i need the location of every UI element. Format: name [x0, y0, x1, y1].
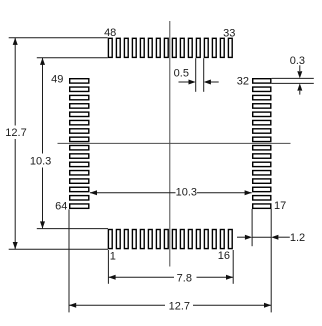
svg-text:64: 64 [55, 201, 67, 213]
extension line top outer [9, 37, 108, 39]
dimension 12.7 bottom line [69, 304, 165, 306]
svg-text:10.3: 10.3 [30, 155, 51, 167]
dimension 0.3 arrows [299, 65, 301, 71]
extension lines pad width 0.3 [272, 77, 314, 79]
dimension 10.3 vertical line [42, 58, 44, 154]
extension line pad17 left edge [251, 209, 253, 246]
svg-text:1.2: 1.2 [290, 232, 305, 244]
svg-text:48: 48 [104, 27, 116, 39]
svg-text:0.3: 0.3 [290, 55, 305, 67]
dimension 1.2 arrows [237, 236, 245, 238]
dimension 7.8 line [109, 276, 174, 278]
pad column left (pins 49..64) [70, 79, 89, 209]
extension line pad16 right edge [232, 250, 234, 284]
centerline vertical [169, 21, 171, 267]
svg-text:12.7: 12.7 [5, 127, 26, 139]
extension line bottom inner [37, 228, 108, 230]
pad column right (pins 32..17) [253, 79, 271, 209]
pad row bottom (pins 1..16) [108, 230, 232, 249]
svg-text:16: 16 [218, 250, 230, 262]
extension line top inner [37, 57, 108, 59]
svg-text:33: 33 [223, 27, 235, 39]
svg-text:10.3: 10.3 [176, 186, 197, 198]
extension line right outer (12.7 and 1.2) [270, 209, 272, 312]
extension lines pad pitch 0.5 [195, 58, 197, 92]
centerline horizontal [58, 142, 291, 144]
svg-text:1: 1 [110, 251, 116, 263]
extension line bottom outer [9, 248, 108, 250]
dimension 0.5 arrows [179, 81, 190, 83]
svg-text:17: 17 [274, 200, 286, 212]
svg-text:12.7: 12.7 [169, 300, 190, 312]
svg-text:7.8: 7.8 [177, 273, 192, 285]
dimension 10.3 horizontal line [90, 192, 176, 194]
dimension 12.7 vertical line [14, 38, 16, 126]
pad row top (pins 48..33) [108, 38, 232, 57]
extension line left outer [68, 209, 70, 312]
extension line pad1 left edge [107, 250, 109, 284]
svg-text:32: 32 [237, 75, 249, 87]
svg-text:49: 49 [51, 73, 63, 85]
svg-text:0.5: 0.5 [174, 68, 189, 80]
